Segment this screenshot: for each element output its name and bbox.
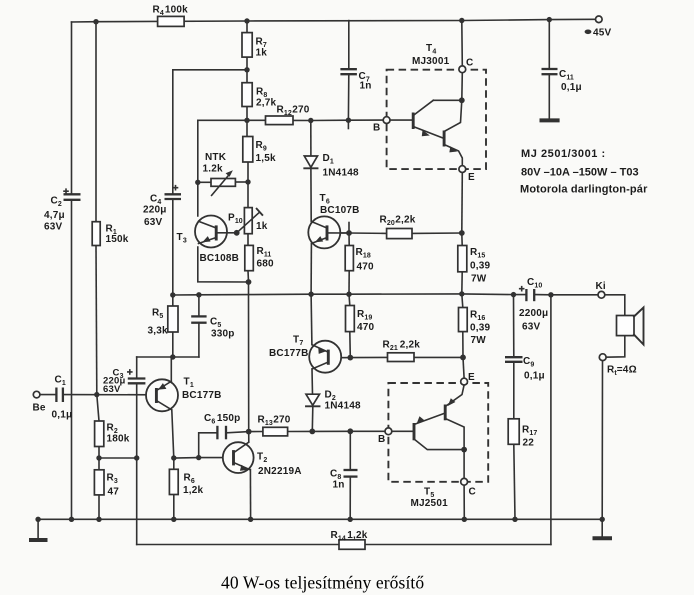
wire C7 branch x=348.8 bbox=[348, 21, 350, 70]
svg-text:470: 470 bbox=[357, 322, 375, 333]
speaker Rt bbox=[617, 316, 635, 336]
capacitor C2 4,7u bbox=[64, 193, 81, 195]
svg-text:R4100k: R4100k bbox=[153, 5, 189, 18]
capacitor C10 2200u bbox=[525, 289, 527, 301]
wire C8 branch bbox=[349, 431, 351, 469]
svg-text:NTK: NTK bbox=[205, 152, 227, 163]
junction 248.5,282 bbox=[246, 279, 252, 285]
resistor R4 bbox=[158, 16, 185, 26]
wire R9 bottom to NTK junction to P10 bbox=[247, 162, 249, 208]
node E of T5 bbox=[461, 378, 468, 385]
svg-text:2200μ: 2200μ bbox=[519, 308, 548, 319]
wire B node row y=431.4 bbox=[249, 431, 263, 433]
node B of T4 bbox=[383, 117, 390, 124]
wire B row to T4 bbox=[311, 119, 383, 121]
ground left bar bbox=[29, 538, 48, 542]
junction 96.8,394.6 bbox=[94, 392, 99, 397]
terminal +45V bbox=[596, 16, 603, 23]
svg-text:1,2k: 1,2k bbox=[183, 485, 204, 496]
junction 236.7,232.8 bbox=[234, 230, 240, 236]
capacitor C9 0,1u bbox=[505, 356, 523, 358]
wire C6 corner bbox=[199, 433, 217, 458]
resistor R1 bbox=[92, 222, 100, 246]
resistor R12 bbox=[266, 116, 294, 125]
svg-text:63V: 63V bbox=[44, 222, 63, 233]
svg-text:0,1μ: 0,1μ bbox=[561, 82, 582, 93]
wire T7 base to junction bbox=[329, 357, 351, 359]
ground right stub bbox=[601, 519, 603, 536]
svg-text:0,1μ: 0,1μ bbox=[524, 371, 545, 382]
ground bar under C11 bbox=[540, 118, 560, 122]
junction 463,357.4 bbox=[460, 355, 466, 361]
wire T6 emitter down to rail bbox=[310, 244, 312, 295]
node C of T4 bbox=[459, 66, 466, 73]
wire T2 collector bbox=[248, 432, 250, 442]
junction 461.8,100.3 bbox=[459, 97, 465, 103]
wire C4 bootstrap branch x=172.8 bbox=[173, 69, 247, 71]
svg-text:B: B bbox=[378, 434, 385, 445]
svg-text:Ki: Ki bbox=[596, 281, 606, 292]
terminal Ki bbox=[598, 291, 605, 298]
junction 602.2,519.3 bbox=[600, 517, 605, 522]
junction 550.9,294.8 bbox=[548, 292, 553, 297]
diode D2 1N4148 bbox=[306, 394, 320, 405]
darlington T4 MJ3001 dashed box bbox=[387, 70, 486, 169]
svg-text:45V: 45V bbox=[593, 28, 612, 39]
wire T4 C node to internal collector dot bbox=[461, 73, 464, 101]
junction 515,519.3 bbox=[512, 517, 517, 522]
wire speaker bottom to Rt bbox=[606, 336, 625, 358]
junction 461.8,293.9 bbox=[459, 291, 464, 296]
junction 461.8,233 bbox=[459, 230, 465, 236]
terminal Rt bbox=[599, 354, 606, 361]
svg-text:80V –10A –150W – T03: 80V –10A –150W – T03 bbox=[521, 167, 639, 179]
wire P10 bottom to R11 bbox=[247, 234, 249, 246]
junction 350.3,357.6 bbox=[347, 355, 353, 361]
junction 172.8,295 bbox=[170, 292, 175, 297]
junction 247,21 bbox=[244, 18, 249, 23]
wire T7 collector down through D2 bbox=[311, 369, 314, 394]
wire C5 branch bbox=[198, 295, 200, 317]
wire D1 branch x=311 bbox=[310, 121, 312, 157]
transistor T7 BC177B bbox=[309, 341, 341, 373]
junction 311.1,294.2 bbox=[308, 292, 313, 297]
resistor R9 bbox=[243, 137, 253, 163]
wire T7 emitter from rail bbox=[310, 294, 313, 344]
svg-text:1k: 1k bbox=[256, 221, 268, 232]
terminal Be bbox=[33, 391, 40, 398]
wire R18 bbox=[348, 233, 350, 246]
svg-text:Motorola darlington-pár: Motorola darlington-pár bbox=[520, 184, 648, 196]
svg-text:R141,2k: R141,2k bbox=[331, 530, 368, 543]
wire T3 emitter to bottom corner bbox=[198, 247, 249, 282]
svg-text:BC107B: BC107B bbox=[320, 205, 360, 216]
wire R16 junction down to T5 E bbox=[463, 357, 464, 378]
svg-text:2,7k: 2,7k bbox=[256, 98, 277, 109]
svg-text:E: E bbox=[468, 372, 475, 383]
wire C11 branch x=549.3 bbox=[548, 20, 550, 69]
resistor R2 bbox=[95, 421, 104, 447]
junction 350.2,519.3 bbox=[348, 517, 353, 522]
wire NTK branch bbox=[198, 181, 211, 183]
junction 549.3,19.6 bbox=[547, 17, 552, 22]
transistor T6 BC107B bbox=[308, 216, 340, 248]
potentiometer P10 bbox=[244, 208, 252, 234]
resistor R5 bbox=[168, 306, 178, 332]
junction 464.1,449.6 bbox=[461, 447, 467, 453]
wire R8 junction to T3 block corner bbox=[198, 120, 247, 216]
svg-text:C: C bbox=[469, 487, 476, 498]
svg-text:BC177B: BC177B bbox=[182, 390, 222, 401]
svg-text:B: B bbox=[373, 123, 380, 134]
svg-text:1n: 1n bbox=[360, 81, 372, 92]
wire R2 R3 branch bbox=[97, 395, 99, 421]
capacitor C5 330p bbox=[191, 315, 206, 317]
wire R11 bottom to junction bbox=[247, 271, 250, 282]
T5 internals bbox=[414, 385, 464, 478]
ground left symbol bbox=[37, 519, 39, 538]
svg-text:Rt=4Ω: Rt=4Ω bbox=[607, 365, 637, 378]
svg-text:330p: 330p bbox=[211, 329, 235, 340]
svg-text:1,5k: 1,5k bbox=[256, 153, 277, 164]
wire central column x=248 top rail to R7 bbox=[246, 21, 248, 33]
node C of T5 bbox=[461, 478, 468, 485]
svg-text:680: 680 bbox=[257, 259, 275, 270]
svg-text:BC108B: BC108B bbox=[200, 253, 240, 264]
transistor T2 2N2219A bbox=[223, 442, 254, 473]
diode D1 1N4148 bbox=[304, 156, 317, 167]
svg-text:2N2219A: 2N2219A bbox=[258, 466, 302, 477]
junction 198.7,457.6 bbox=[196, 455, 201, 460]
svg-text:63V: 63V bbox=[103, 384, 121, 395]
wire R19 bbox=[348, 294, 351, 305]
resistor R8 bbox=[242, 83, 252, 107]
T4 internals bbox=[413, 100, 462, 166]
svg-text:180k: 180k bbox=[107, 434, 130, 445]
resistor R19 bbox=[346, 306, 355, 332]
junction 461.8,20.5 bbox=[459, 18, 464, 23]
junction 350.3,431.3 bbox=[347, 428, 353, 434]
svg-text:C: C bbox=[466, 58, 473, 69]
junction 348.4,120.2 bbox=[346, 118, 351, 123]
wire R5 branch bbox=[172, 295, 174, 306]
wire T1 collector down to T2 base node bbox=[172, 410, 174, 458]
wire T4 collector line from top rail bbox=[461, 21, 464, 67]
svg-text:0,39: 0,39 bbox=[470, 323, 491, 334]
darlington T5 MJ2501 dashed box bbox=[388, 383, 488, 482]
svg-text:63V: 63V bbox=[144, 217, 163, 228]
capacitor C11 0,1u bbox=[542, 68, 558, 70]
svg-text:22: 22 bbox=[523, 438, 535, 449]
svg-text:1.2k: 1.2k bbox=[203, 164, 224, 175]
capacitor C1 0,1u bbox=[55, 388, 57, 403]
svg-text:3,3k: 3,3k bbox=[148, 326, 169, 337]
junction 349,294.2 bbox=[346, 292, 351, 297]
capacitor C8 1n bbox=[344, 469, 358, 471]
svg-text:1N4148: 1N4148 bbox=[325, 401, 361, 412]
junction 513.5,294.6 bbox=[511, 292, 516, 297]
junction 71.5,519.3 bbox=[69, 517, 74, 522]
capacitor C6 150p bbox=[216, 426, 218, 440]
svg-text:0,39: 0,39 bbox=[470, 261, 491, 272]
capacitor C7 1n bbox=[340, 68, 357, 70]
junction 310.8,120.5 bbox=[308, 118, 313, 123]
svg-text:R212,2k: R212,2k bbox=[383, 340, 421, 353]
wire output rail y=294.6 bbox=[173, 294, 526, 295]
resistor R14 bbox=[339, 540, 365, 550]
svg-text:1N4148: 1N4148 bbox=[323, 168, 359, 179]
svg-text:47: 47 bbox=[108, 487, 120, 498]
svg-text:63V: 63V bbox=[522, 322, 541, 333]
junction 99,458 bbox=[96, 455, 101, 460]
junction 38.1,519.3 bbox=[35, 517, 40, 522]
svg-text:MJ3001: MJ3001 bbox=[412, 56, 450, 67]
junction 248,182 bbox=[245, 179, 250, 184]
resistor R16 bbox=[459, 308, 468, 332]
node E of T4 bbox=[459, 166, 466, 173]
junction 247,69.8 bbox=[244, 67, 249, 72]
svg-text:470: 470 bbox=[357, 262, 375, 273]
wire Rt down to ground bbox=[601, 361, 603, 520]
svg-text:R12270: R12270 bbox=[277, 105, 310, 118]
wire T1 emitter node y=357 bbox=[137, 356, 199, 358]
resistor R11 bbox=[245, 245, 254, 270]
wire R8 bottom junction bbox=[246, 107, 248, 137]
svg-text:E: E bbox=[468, 172, 475, 183]
resistor R21 bbox=[388, 353, 415, 362]
wire T6 base to R18 junction bbox=[329, 232, 350, 234]
svg-text:MJ 2501/3001 :: MJ 2501/3001 : bbox=[521, 148, 606, 160]
junction 197.8,182.3 bbox=[195, 180, 200, 185]
wire C7 stub below B-wire bbox=[347, 120, 349, 128]
wire R15 bbox=[461, 233, 463, 246]
junction 136.7,458 bbox=[134, 455, 139, 460]
wire R6 branch bbox=[173, 458, 175, 469]
svg-text:1n: 1n bbox=[333, 480, 345, 491]
wire left rail C2 branch x=71.5 bbox=[71, 22, 73, 194]
wire C9 R17 branch x=514 bbox=[513, 295, 515, 357]
resistor R6 bbox=[169, 469, 178, 494]
junction 349,233 bbox=[346, 230, 352, 236]
transistor T1 BC177B bbox=[146, 379, 178, 411]
junction 247,120.3 bbox=[244, 118, 249, 123]
resistor R3 bbox=[94, 470, 104, 495]
wire T4 E to R20 junction bbox=[461, 172, 464, 233]
wire top +45V rail bbox=[72, 19, 596, 22]
junction 588,31.8 bbox=[585, 30, 592, 35]
svg-text:0,1μ: 0,1μ bbox=[52, 410, 73, 421]
wire R16 bbox=[462, 294, 463, 308]
junction 250.6,519.3 bbox=[248, 517, 253, 522]
resistor R7 bbox=[242, 33, 252, 58]
wire T1 emitter up bbox=[170, 357, 172, 381]
wire R12 to D1 junction bbox=[247, 119, 266, 121]
svg-text:220μ: 220μ bbox=[143, 205, 167, 216]
junction 172.8,357 bbox=[170, 354, 175, 359]
junction 173.8,519.3 bbox=[171, 517, 176, 522]
junction 173.8,458 bbox=[171, 455, 176, 460]
wire input Be to T1 base bbox=[40, 394, 56, 396]
resistor R17 bbox=[508, 419, 519, 445]
resistor R18 bbox=[345, 246, 353, 271]
wire C3 feedback line x=136.7 bbox=[136, 357, 138, 378]
thermistor NTK 1.2k bbox=[211, 179, 235, 187]
wire T5 C to ground bbox=[463, 485, 465, 519]
junction 198.9,294.8 bbox=[196, 292, 201, 297]
wire R1 branch x=96 bbox=[95, 22, 97, 222]
junction 248.7,431.6 bbox=[246, 429, 252, 435]
svg-text:7W: 7W bbox=[471, 335, 487, 346]
wire R21 row y=357.5 bbox=[350, 356, 387, 358]
junction 96,21.7 bbox=[93, 19, 98, 24]
wire R20 row y=233 bbox=[349, 232, 387, 234]
svg-text:1k: 1k bbox=[256, 48, 268, 59]
wire R7 bottom to R8 top bbox=[246, 57, 248, 83]
wire R14 feedback from C10 right junction bbox=[550, 295, 552, 545]
resistor R13 bbox=[263, 427, 288, 436]
wire ground rail bbox=[38, 518, 602, 520]
wire stub above T6 base junction bbox=[348, 223, 350, 234]
svg-text:R202,2k: R202,2k bbox=[380, 215, 416, 228]
wire C6 right to junction bbox=[227, 432, 249, 433]
svg-text:BC177B: BC177B bbox=[269, 348, 309, 359]
transistor T3 BC108B bbox=[195, 216, 227, 248]
node B of T5 bbox=[385, 428, 392, 435]
capacitor C4 220u bbox=[165, 193, 182, 195]
junction 312.3,431.4 bbox=[309, 429, 315, 435]
wire T2 emitter to ground bbox=[249, 470, 251, 520]
svg-text:MJ2501: MJ2501 bbox=[411, 498, 449, 509]
wire x=248 through rail down to C6 junction bbox=[248, 282, 250, 432]
svg-text:150k: 150k bbox=[106, 234, 129, 245]
resistor R20 bbox=[387, 229, 412, 239]
junction 99,519.3 bbox=[96, 517, 101, 522]
ground right bar bbox=[593, 536, 613, 540]
svg-text:Be: Be bbox=[33, 403, 46, 414]
svg-text:40 W-os teljesítmény erősítő: 40 W-os teljesítmény erősítő bbox=[221, 573, 424, 593]
wire T2 base bbox=[174, 457, 232, 459]
resistor R15 bbox=[458, 246, 467, 272]
svg-text:C6150p: C6150p bbox=[204, 413, 240, 426]
svg-text:4,7μ: 4,7μ bbox=[44, 210, 65, 221]
svg-text:7W: 7W bbox=[471, 274, 487, 285]
wire R2 bottom to C3 line bbox=[99, 457, 137, 459]
junction 464.3,519.3 bbox=[462, 517, 467, 522]
capacitor C3 220u bbox=[128, 377, 146, 379]
svg-text:R13270: R13270 bbox=[258, 415, 291, 428]
